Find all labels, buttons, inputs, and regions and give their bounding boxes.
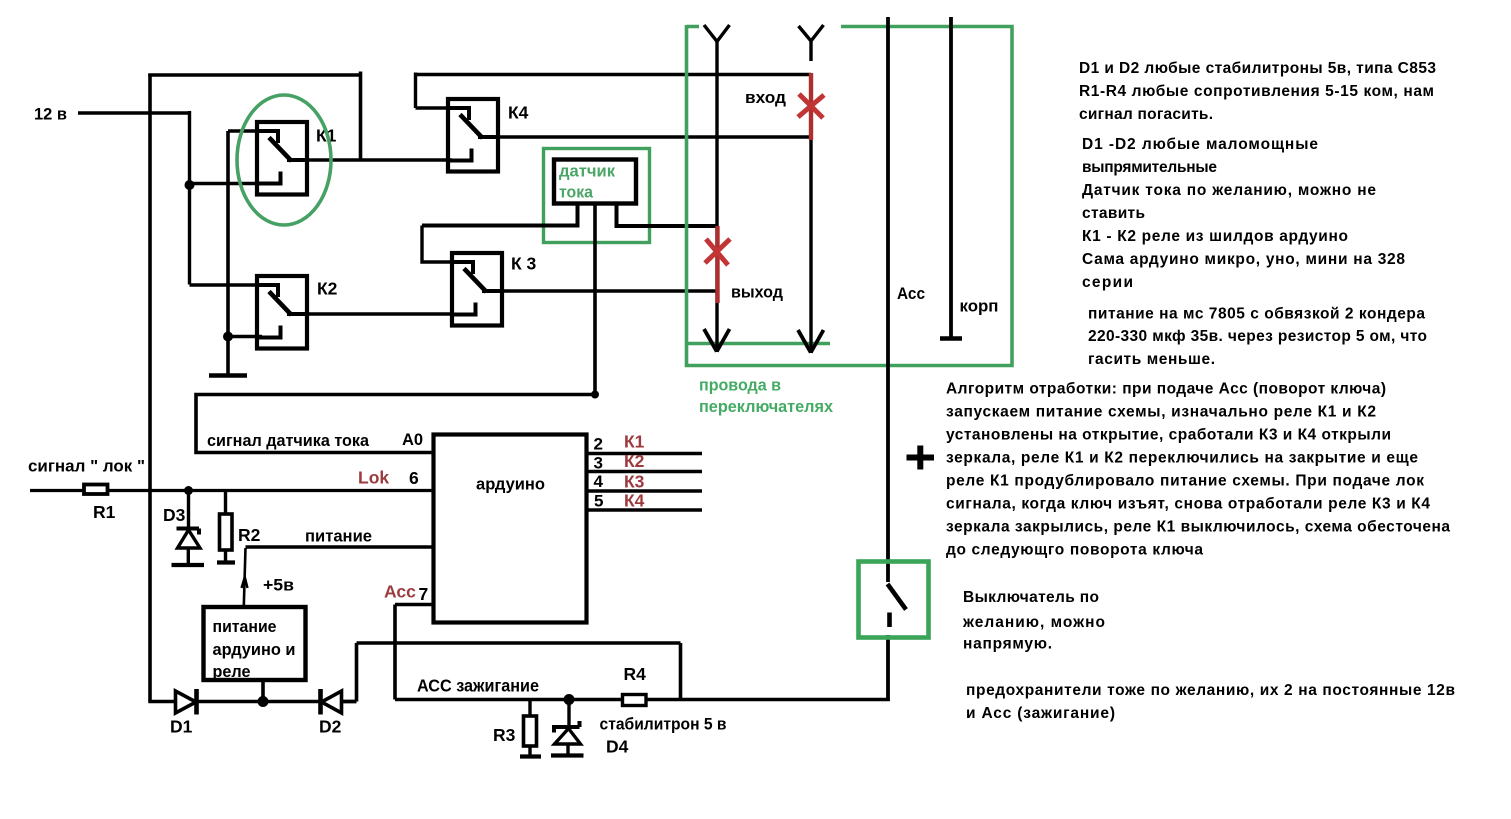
note block fuses [966,682,1455,722]
svg-text:Асс: Асс [384,582,416,602]
junction dot K2 bottom to ground [223,332,233,342]
svg-text:220-330 мкф 35в. через резисто: 220-330 мкф 35в. через резистор 5 ом, чт… [1088,328,1427,345]
wire pin 3 [587,470,703,473]
svg-text:предохранители тоже по желанию: предохранители тоже по желанию, их 2 на … [966,682,1455,699]
svg-text:корп: корп [960,297,999,316]
wire supply box to rail [261,680,265,702]
label выход [731,283,783,302]
label сигнал лок [28,457,145,476]
ground [209,373,247,378]
red cross вход [798,94,824,118]
svg-text:ставить: ставить [1082,205,1145,222]
wire 12V feed [78,111,263,285]
wire K3 top pin [422,226,458,263]
label Асс pin [384,582,416,602]
svg-text:К1 - К2 реле из шилдов ардуино: К1 - К2 реле из шилдов ардуино [1082,228,1348,245]
svg-text:до следующго поворота ключа: до следующго поворота ключа [946,542,1203,559]
wire K1 output to K4 bottom contact [288,158,452,161]
wire sensor signal drop [593,203,597,394]
svg-text:питание на мс 7805 с обвязкой: питание на мс 7805 с обвязкой 2 кондера [1088,306,1425,323]
wire pin 5 [587,508,703,511]
корп ground tick [940,336,962,340]
relay K3 [452,253,504,326]
+5V feed arrow [242,548,248,606]
label питание ардуино и реле [213,617,296,681]
svg-text:Сама ардуино микро, уно, мини: Сама ардуино микро, уно, мини на 328 [1082,251,1405,268]
label вход [745,88,786,107]
label net K2 [624,451,645,471]
svg-text:5: 5 [594,492,603,511]
svg-text:напрямую.: напрямую. [963,636,1052,653]
svg-text:2: 2 [594,435,603,454]
svg-text:D2: D2 [319,717,342,737]
wire bottom supply [148,700,356,704]
relay K1 [257,122,309,195]
label A0 [402,431,423,449]
svg-text:D1: D1 [170,717,193,737]
note block algorithm [946,381,1450,559]
svg-text:сигнал погасить.: сигнал погасить. [1079,106,1213,123]
arduino U1 box [434,435,587,623]
svg-text:и Асс (зажигание): и Асс (зажигание) [966,705,1115,722]
diode D2 [321,689,342,715]
label D3 [163,505,186,525]
wire K4 output [482,135,811,138]
resistor R4 [623,695,647,706]
svg-text:7: 7 [419,584,429,604]
wire ACC box top edge [357,641,681,645]
green harness frame [687,25,1013,366]
label net K4 [624,491,645,511]
label питание [305,527,372,546]
junction dot supply [258,696,269,707]
svg-text:ардуино и: ардуино и [213,640,296,659]
svg-text:К4: К4 [624,491,645,511]
junction dot lok [184,486,193,495]
label pin 3 [594,454,603,473]
note block parts list 1 [1079,60,1436,123]
red cross выход [705,239,730,265]
svg-text:R1-R4 любые сопротивления 5-15: R1-R4 любые сопротивления 5-15 ком, нам [1079,83,1434,100]
red overdraw on выход wire [715,226,719,303]
label D4 [606,737,629,757]
plus symbol [907,446,935,470]
wire K1 top pin [228,129,262,132]
svg-text:К 3: К 3 [511,254,537,274]
green highlight ellipse around K1 [237,95,331,225]
resistor R1 [84,485,108,495]
power supply box [204,607,306,680]
svg-text:R3: R3 [493,725,516,745]
svg-text:серии: серии [1082,274,1133,291]
wire питание [246,545,434,549]
svg-text:ардуино: ардуино [476,475,545,494]
resistor R2 [217,491,235,563]
svg-text:Выключатель по: Выключатель по [963,589,1099,606]
wire mirror line 1 (выход) [704,25,730,352]
label Асс harness [897,285,925,303]
wire ACC main [886,17,890,701]
label pin 5 [594,492,603,511]
wire mirror line 2 (вход) [798,25,824,353]
junction dot 12V to K1 branch [185,180,195,190]
note block parts list 2 [1082,136,1405,291]
label D1 [170,717,193,737]
label датчик тока [559,162,615,202]
svg-text:К4: К4 [508,103,529,123]
junction dot sensor signal [591,391,599,399]
switch S1 contacts [888,584,907,627]
relay K2 [257,276,309,349]
wire lok signal [30,489,434,492]
label K2 [317,279,338,299]
label net K3 [624,472,645,492]
wire K3 output [486,289,717,292]
svg-text:выпрямительные: выпрямительные [1082,159,1217,176]
wire корп [949,17,953,338]
wire arduino pin7 [395,605,434,700]
svg-text:+5в: +5в [263,576,294,595]
node 12V label [34,105,67,124]
label K3 [511,254,537,274]
svg-text:датчик: датчик [559,162,615,181]
svg-text:К2: К2 [317,279,338,299]
svg-text:К1: К1 [624,432,645,452]
red overdraw on вход wire [809,73,813,140]
svg-text:R2: R2 [238,525,261,545]
svg-text:питание: питание [305,527,372,546]
svg-text:D3: D3 [163,505,186,525]
relay K4 [448,99,500,172]
wire K4 top pin [416,73,457,109]
note block switch [962,589,1105,653]
wire ACC ignition bottom [395,698,890,702]
wire K2 bottom contact [228,335,262,338]
label провода в переключателях [699,376,834,417]
svg-text:Датчик тока по желанию, можно: Датчик тока по желанию, можно не [1082,182,1376,199]
junction dot D4 [564,694,575,705]
label pin 7 [419,584,429,604]
label pin 6 [409,468,419,488]
label R4 [624,664,647,684]
svg-text:переключателях: переключателях [699,397,834,416]
svg-text:Lok: Lok [358,468,389,488]
label R1 [93,502,116,522]
label K4 [508,103,529,123]
svg-text:D1 -D2 любые маломощные: D1 -D2 любые маломощные [1082,136,1318,153]
label pin 4 [594,472,604,491]
svg-text:12 в: 12 в [34,105,67,124]
svg-text:запускаем питание схемы, изнач: запускаем питание схемы, изначально реле… [946,404,1376,421]
svg-text:стабилитрон 5 в: стабилитрон 5 в [600,715,727,734]
svg-text:R4: R4 [624,664,647,684]
wire D2 riser [342,643,357,702]
label стабилитрон 5 в [600,715,727,734]
left power rail [148,74,152,702]
label ардуино [476,475,545,494]
wire sensor signal to A0 [196,395,595,453]
svg-text:D1 и D2 любые стабилитроны 5в,: D1 и D2 любые стабилитроны 5в, типа С853 [1079,60,1436,77]
wire ACC box right edge [679,643,683,700]
wire pin 2 [587,452,703,455]
label сигнал датчика тока [207,431,370,450]
svg-text:питание: питание [213,617,277,636]
svg-text:провода в: провода в [699,376,781,395]
diode D1 [176,689,197,715]
svg-text:К2: К2 [624,451,645,471]
svg-text:тока: тока [559,183,594,202]
svg-text:выход: выход [731,283,783,302]
wire to K1 bottom contact [190,182,263,185]
wire K2 output to K3 bottom contact [288,312,452,315]
svg-text:4: 4 [594,472,604,491]
svg-text:реле: реле [213,662,251,681]
svg-text:реле К1 продублировало питание: реле К1 продублировало питание схемы. Пр… [946,473,1424,490]
svg-text:Асс: Асс [897,285,925,303]
current sensor box [554,160,636,204]
svg-text:установлены на открытие, срабо: установлены на открытие, сработали К3 и … [946,427,1391,444]
svg-text:сигнала, когда ключ изъят, сно: сигнала, когда ключ изъят, снова отработ… [946,496,1430,513]
current sensor green frame [544,149,650,243]
svg-text:зеркала, реле К1 и К2 переключ: зеркала, реле К1 и К2 переключились на з… [946,450,1418,467]
label R3 [493,725,516,745]
zener D3 [172,491,205,566]
wire riser from K1 output to top rail [359,72,363,161]
svg-text:6: 6 [409,468,419,488]
svg-text:А0: А0 [402,431,423,449]
svg-text:3: 3 [594,454,603,473]
label K1 [316,126,337,146]
wire sensor right pin [617,203,717,226]
label Lok [358,468,389,488]
svg-text:зеркала закрылись, реле К1 вык: зеркала закрылись, реле К1 выключилось, … [946,519,1450,536]
label net K1 [624,432,645,452]
wire ground drop [226,131,230,374]
svg-text:сигнал " лок ": сигнал " лок " [28,457,145,476]
svg-text:желанию, можно: желанию, можно [962,614,1105,631]
label D2 [319,717,342,737]
svg-text:D4: D4 [606,737,629,757]
svg-text:R1: R1 [93,502,116,522]
wire sensor left pin [422,203,578,226]
label pin 2 [594,435,603,454]
wire pin 4 [587,489,703,492]
note block power supply [1088,306,1427,369]
svg-text:сигнал датчика тока: сигнал датчика тока [207,431,370,450]
svg-text:гасить меньше.: гасить меньше. [1088,351,1215,368]
green inner line [688,342,830,346]
label корп [960,297,999,316]
svg-text:Алгоритм отработки: при подаче: Алгоритм отработки: при подаче Асс (пово… [946,381,1386,398]
svg-text:вход: вход [745,88,786,107]
label АСС зажигание [417,676,539,696]
top rail right segment [416,73,812,76]
zener D4 [551,700,584,756]
label R2 [238,525,261,545]
svg-text:К3: К3 [624,472,645,492]
svg-text:АСС зажигание: АСС зажигание [417,676,539,696]
resistor R3 [520,700,541,757]
switch green box [859,562,929,638]
top rail left segment [148,73,362,77]
label +5в [263,576,294,595]
